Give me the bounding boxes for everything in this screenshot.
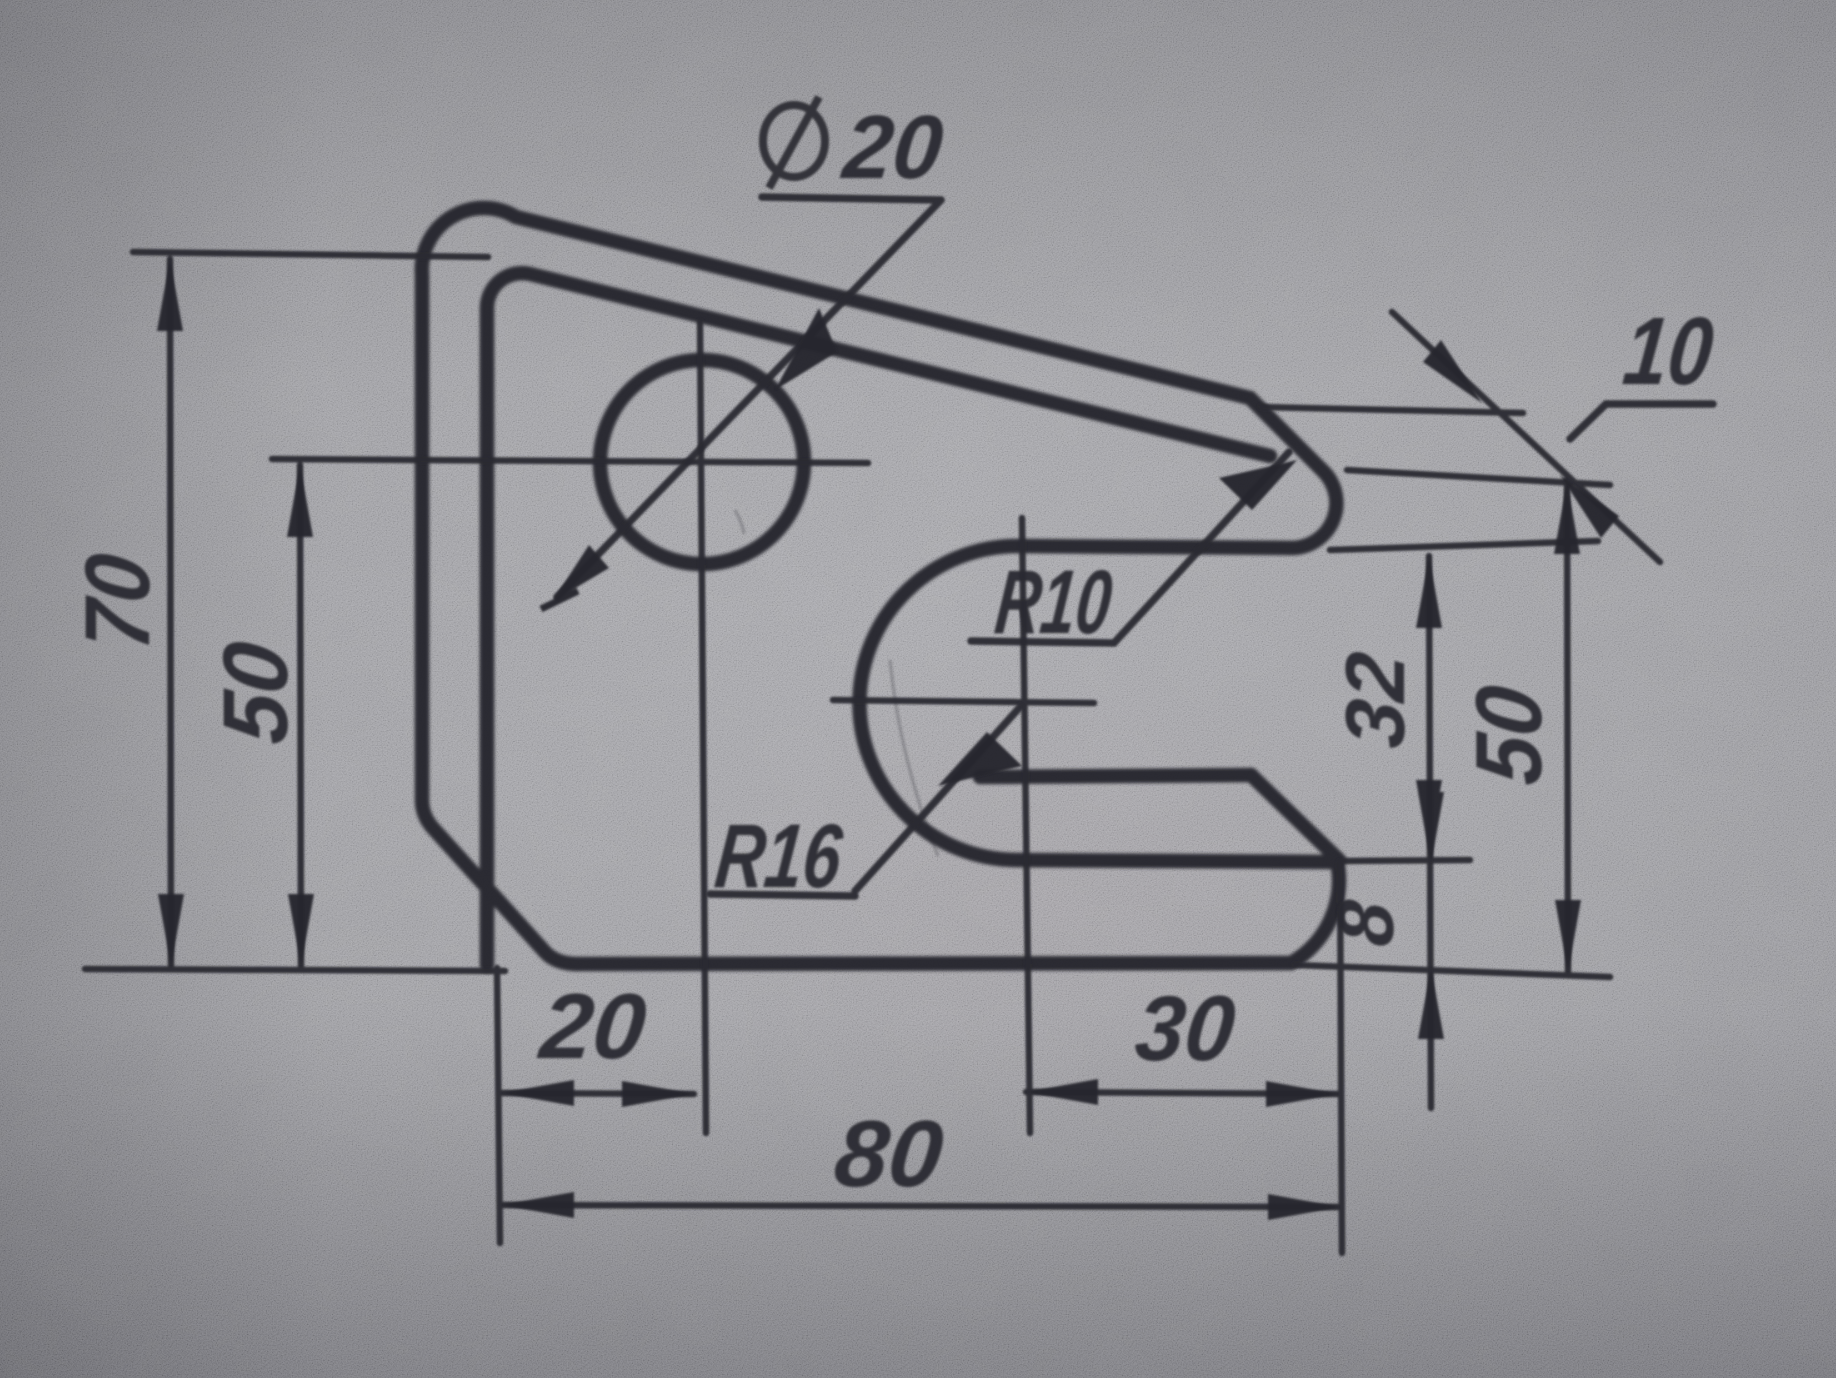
extension line bottom left (70/50) xyxy=(85,969,505,971)
chin corner arc (lower right rounded corner) xyxy=(1291,861,1339,963)
arrow 20 right xyxy=(622,1081,694,1107)
R10 label underline xyxy=(971,641,1114,643)
R10 leader line xyxy=(1114,452,1289,643)
dimension line 50 left xyxy=(300,465,301,966)
arrow 8 top (down, stacked) xyxy=(1418,792,1444,864)
extension line 70 top xyxy=(133,252,488,257)
dimension line 30 xyxy=(1026,1092,1338,1094)
arrow R10 (pointing up-right at beak) xyxy=(1219,460,1297,510)
R16 leader line xyxy=(855,707,1020,891)
extension line 10 upper xyxy=(1261,407,1523,413)
arrow 50R bottom (down) xyxy=(1555,900,1581,972)
arrow 50R top (up) xyxy=(1554,482,1580,554)
svg-text:20: 20 xyxy=(837,97,948,198)
arrow 70 top (up) xyxy=(157,259,183,331)
hole horizontal centerline / 50-left top extension xyxy=(272,459,868,463)
arrow 32 bottom (down) xyxy=(1416,780,1442,852)
slot vertical centerline / 30 left extension xyxy=(1022,518,1030,1133)
svg-text:10: 10 xyxy=(1619,298,1718,405)
extension line 32 bottom / 8 top (shelf ext) xyxy=(1345,860,1470,861)
dimension line 50 right xyxy=(1567,480,1568,972)
hole circle D20 xyxy=(600,360,804,564)
svg-text:50: 50 xyxy=(203,637,307,748)
R16 label underline xyxy=(710,894,855,896)
dimension line 80 xyxy=(502,1205,1340,1207)
10 label knee xyxy=(1570,404,1606,439)
outer contour: bottom edge, bottom-left corner, left edge, top-left corner, top slant, beak tip face, beak tip arc, slot top edge, slot R16 arc, shelf xyxy=(422,208,1337,964)
inner contour: inner vertical, inner top corner, inner slant xyxy=(487,273,1270,965)
arrow D20 lower barb xyxy=(541,591,578,609)
slot horizontal centerline xyxy=(833,700,1094,703)
svg-text:R16: R16 xyxy=(711,806,847,907)
arrow 50L bottom (down) xyxy=(288,894,314,966)
arrow 8 bottom (up from below) xyxy=(1418,967,1444,1039)
arrow 30 right xyxy=(1266,1081,1338,1107)
arrow 20 left xyxy=(502,1080,574,1106)
hole vertical centerline / 20 right extension xyxy=(700,322,706,1133)
extension line 32 top (slot top edge ext) xyxy=(1330,541,1598,550)
extension line 10 lower / 50 right top xyxy=(1347,470,1610,485)
arrow 80 right xyxy=(1268,1194,1340,1220)
faint construction-line remnant near R16 arc xyxy=(735,510,938,856)
arrow 32 top (up) xyxy=(1416,556,1442,628)
arrow 70 bottom (down) xyxy=(158,894,184,966)
dimension line 70 xyxy=(170,259,171,966)
arrow 50L top (up) xyxy=(287,465,313,537)
extension line bottom right (8/50) xyxy=(1295,965,1610,977)
arrow D20 lower (at end of leader, pointing down-left) xyxy=(552,545,609,602)
label diameter symbol xyxy=(763,97,825,188)
svg-text:70: 70 xyxy=(65,549,169,654)
arrow 30 left xyxy=(1026,1079,1098,1105)
svg-text:20: 20 xyxy=(534,974,651,1078)
svg-text:80: 80 xyxy=(830,1101,948,1206)
dimension line 10 (45 deg) xyxy=(1392,312,1660,562)
svg-text:R10: R10 xyxy=(991,552,1117,653)
svg-text:32: 32 xyxy=(1328,648,1422,752)
extension line 20/80 left xyxy=(497,968,500,1243)
extension line 30/80 right xyxy=(1340,862,1342,1253)
svg-text:50: 50 xyxy=(1456,681,1561,789)
jaw 45-deg chamfer xyxy=(1251,775,1339,860)
dimension line 20 xyxy=(502,1093,694,1094)
arrow R16 (pointing down-left at arc) xyxy=(938,732,1022,786)
D20 leader line xyxy=(557,200,941,597)
dimension line 32 / 8 vertical xyxy=(1429,556,1431,1108)
jaw top edge (slot lower lip) xyxy=(980,775,1251,777)
arrow 10 lower (up-left along 45) xyxy=(1560,475,1619,538)
arrow 10 upper (down-right along 45) xyxy=(1423,340,1482,403)
10 label underline xyxy=(1606,400,1713,408)
D20 label underline xyxy=(762,197,941,200)
arrow 80 left xyxy=(502,1192,574,1218)
svg-text:30: 30 xyxy=(1131,976,1240,1080)
arrow D20 upper (pointing down-left at circle) xyxy=(775,308,837,390)
